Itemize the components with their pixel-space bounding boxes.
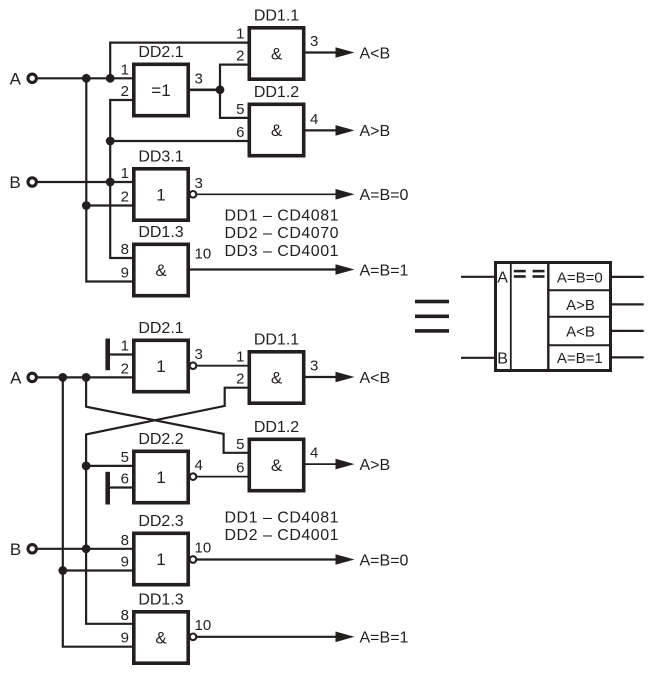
svg-text:3: 3 (195, 70, 203, 87)
wire: A rail down to DD1.3 pin 9 (86, 206, 132, 282)
svg-text:A<B: A<B (360, 370, 391, 387)
svg-text:5: 5 (236, 436, 244, 453)
svg-text:4: 4 (310, 445, 318, 462)
equivalence symbol bar 2 (415, 315, 449, 319)
svg-text:&: & (271, 45, 283, 64)
svg-text:1: 1 (156, 550, 165, 569)
junction: B rail / B input line (82, 544, 91, 553)
svg-text:DD2.3: DD2.3 (138, 513, 183, 530)
svg-text:DD2.2: DD2.2 (138, 431, 183, 448)
svg-text:A=B=1: A=B=1 (360, 262, 409, 279)
AND gate DD1.2 (bottom) (249, 439, 303, 490)
svg-text:1: 1 (236, 349, 244, 366)
NOR gate DD3.1 (top) (134, 169, 188, 220)
block inner divider (outputs column) (547, 261, 549, 372)
wire: B branch to DD1.2 pin 6 (110, 140, 247, 142)
svg-text:DD2 – CD4070: DD2 – CD4070 (225, 225, 340, 242)
svg-text:2: 2 (236, 48, 244, 65)
wire: B rail down to DD1.3 pin 8 (110, 182, 132, 258)
svg-text:3: 3 (195, 175, 203, 192)
arrow: A=B=0 output (bottom) (336, 554, 355, 565)
svg-text:9: 9 (121, 630, 129, 647)
wire: XOR out down to DD1.2 pin 5 (220, 90, 248, 118)
svg-text:3: 3 (310, 358, 318, 375)
svg-text:1: 1 (156, 357, 165, 376)
input terminal B (top comparator) (28, 178, 36, 186)
junction: B rail at DD2.2 pin 5 (82, 462, 91, 471)
svg-text:A: A (10, 368, 22, 387)
wire: block input B (461, 357, 495, 359)
AND gate DD1.1 (bottom) (249, 352, 303, 403)
arrow: A>B output (bottom) (336, 459, 355, 470)
wire: block output A=B=1 (612, 356, 644, 358)
inversion bubble DD2.2 output (190, 473, 197, 480)
inversion bubble DD2.3 output (190, 556, 197, 563)
equivalence symbol bar 3 (415, 329, 449, 333)
svg-text:2: 2 (236, 371, 244, 388)
svg-text:&: & (155, 261, 167, 280)
svg-text:10: 10 (195, 540, 212, 557)
svg-text:DD2.1: DD2.1 (138, 44, 183, 61)
svg-text:DD3.1: DD3.1 (138, 149, 183, 166)
wire: B rail down to B input line (85, 466, 87, 549)
wire: XOR out up to DD1.1 pin 2 (220, 65, 248, 90)
junction: A line / far-left A rail (bottom) (58, 373, 67, 382)
junction: A rail at DD3.1 pin 2 (82, 201, 91, 210)
svg-text:DD2 – CD4001: DD2 – CD4001 (225, 527, 340, 544)
svg-text:DD1.3: DD1.3 (138, 592, 183, 609)
wire: A branch up to DD1.1 pin 1 (110, 43, 247, 79)
wire: DD1.1 output to A<B arrow (bottom) (306, 376, 338, 378)
logic-1 tie bar at DD2.1 pin 1 (105, 339, 110, 371)
svg-text:A>B: A>B (360, 123, 391, 140)
inversion bubble DD1.3 output (bottom) (190, 634, 197, 641)
svg-text:DD1.1: DD1.1 (254, 332, 299, 349)
NAND gate DD1.3 (bottom) (134, 612, 188, 663)
svg-text:DD1 – CD4081: DD1 – CD4081 (225, 207, 340, 224)
wire: A rail down to DD1.3 pin 9 (bottom) (63, 571, 132, 647)
svg-text:5: 5 (236, 101, 244, 118)
wire: B rail down to DD1.3 pin 8 (bottom) (86, 549, 132, 624)
wire: block output A>B (612, 303, 644, 305)
wire: DD2.2 out to DD1.2 pin 6 (bottom) (197, 476, 248, 478)
wire: junction to DD2.2 pin 5 (86, 465, 132, 467)
wire: tie bar to DD2.2 pin 6 (110, 486, 132, 488)
svg-text:6: 6 (236, 459, 244, 476)
arrow: A=B=0 output (top) (336, 189, 355, 200)
block function symbol = = (514, 270, 526, 273)
equivalence symbol bar 1 (415, 300, 449, 304)
svg-text:8: 8 (121, 532, 129, 549)
svg-text:1: 1 (121, 61, 129, 78)
input terminal B (bottom comparator) (28, 545, 36, 553)
svg-text:3: 3 (310, 33, 318, 50)
svg-text:1: 1 (236, 26, 244, 43)
wire: DD2.1 out to DD1.1 pin 1 (bottom) (197, 365, 248, 367)
junction: A line / branch to DD1.1 pin 1 (106, 74, 115, 83)
wire: DD1.3 output to A=B=1 arrow (bottom) (197, 636, 337, 638)
svg-text:A<B: A<B (566, 324, 595, 341)
wire: DD1.1 output to A<B arrow (306, 51, 338, 53)
wire: DD1.2 output to A>B arrow (bottom) (306, 463, 338, 465)
wire: DD1.3 output to A=B=1 arrow (190, 268, 337, 270)
svg-text:2: 2 (121, 189, 129, 206)
wire: A left rail down to DD3.1 pin 2 junction (85, 78, 87, 205)
junction: B line / B rail (top) (106, 178, 115, 187)
svg-text:A=B=0: A=B=0 (557, 269, 603, 286)
svg-text:4: 4 (310, 111, 318, 128)
svg-text:5: 5 (121, 449, 129, 466)
input terminal A (top comparator) (28, 74, 36, 82)
svg-text:A<B: A<B (360, 45, 391, 62)
wire: A terminal to DD2.1 pin 1 (37, 77, 133, 79)
XOR gate DD2.1 (top) (134, 64, 188, 115)
svg-text:DD2.1: DD2.1 (138, 320, 183, 337)
wire: A cross branch to DD1.2 pin 5 (diagonal) (86, 377, 247, 452)
wire: DD1.1 pin 2 cross branch to B rail (diagonal) (86, 388, 247, 466)
svg-text:B: B (9, 173, 20, 192)
AND gate DD1.3 (top) (134, 244, 188, 295)
svg-text:4: 4 (195, 457, 203, 474)
svg-text:&: & (271, 369, 283, 388)
junction: B rail at DD1.2 pin 6 branch (106, 137, 115, 146)
svg-text:2: 2 (121, 360, 129, 377)
wire: DD1.2 output to A>B arrow (306, 129, 338, 131)
svg-text:8: 8 (121, 241, 129, 258)
inversion bubble DD2.1 output (bottom) (190, 362, 197, 369)
svg-text:6: 6 (236, 124, 244, 141)
wire: B terminal to DD3.1 pin 1 (37, 181, 133, 183)
svg-text:1: 1 (121, 338, 129, 355)
wire: B terminal to DD2.3 pin 8 (37, 548, 133, 550)
junction: XOR output fanout (216, 85, 225, 94)
svg-text:B: B (497, 351, 508, 368)
svg-text:10: 10 (195, 246, 212, 263)
junction: A line / cross branch (bottom) (82, 373, 91, 382)
wire: junction to DD2.3 pin 9 (63, 569, 132, 571)
svg-text:=1: =1 (151, 81, 170, 100)
logic-1 tie bar at DD2.2 pin 6 (105, 472, 110, 505)
svg-text:&: & (155, 629, 167, 648)
comparator block outline (496, 263, 611, 371)
svg-text:1: 1 (121, 165, 129, 182)
AND gate DD1.1 (top) (249, 28, 303, 79)
wire: block output A=B=0 (612, 276, 644, 278)
svg-text:B: B (10, 540, 21, 559)
svg-text:DD1.3: DD1.3 (138, 224, 183, 241)
block inner divider (inputs column) (510, 261, 512, 372)
AND gate DD1.2 (top) (249, 104, 303, 155)
wire: DD3.1 output to A=B=0 arrow (197, 193, 337, 195)
svg-text:A: A (10, 69, 22, 88)
NOR gate DD2.3 (134, 533, 188, 584)
svg-text:A=B=1: A=B=1 (557, 350, 603, 367)
svg-text:A=B=0: A=B=0 (360, 187, 409, 204)
block cell divider 1 (548, 289, 612, 291)
arrow: A<B output (top) (336, 47, 355, 58)
arrow: A=B=1 output (top) (336, 264, 355, 275)
wire: junction to DD3.1 pin 2 (86, 204, 132, 206)
input terminal A (bottom comparator) (28, 373, 36, 381)
wire: A terminal to DD2.1 pin 2 (bottom) (37, 376, 133, 378)
svg-text:A=B=0: A=B=0 (360, 552, 409, 569)
wire: B rail up to DD2.1 pin 2 (110, 100, 132, 182)
svg-text:1: 1 (156, 186, 165, 205)
arrow: A<B output (bottom) (336, 372, 355, 383)
wire: A rail down to DD2.3 pin 9 junction (62, 377, 64, 570)
svg-text:&: & (271, 121, 283, 140)
svg-text:DD1.2: DD1.2 (254, 419, 299, 436)
svg-text:DD1 – CD4081: DD1 – CD4081 (225, 509, 340, 526)
NOR gate DD2.1 (bottom) (134, 340, 188, 391)
svg-text:DD1.2: DD1.2 (254, 84, 299, 101)
svg-text:A>B: A>B (360, 457, 391, 474)
svg-text:DD1.1: DD1.1 (254, 8, 299, 25)
svg-text:10: 10 (195, 617, 212, 634)
NOR gate DD2.2 (134, 451, 188, 502)
svg-text:A>B: A>B (566, 297, 595, 314)
inversion bubble DD3.1 output (190, 191, 197, 198)
wire: block input A (461, 276, 495, 278)
svg-text:A=B=1: A=B=1 (360, 630, 409, 647)
svg-text:3: 3 (195, 346, 203, 363)
svg-text:DD3 – CD4001: DD3 – CD4001 (225, 243, 340, 260)
svg-text:&: & (271, 456, 283, 475)
svg-text:2: 2 (121, 83, 129, 100)
arrow: A=B=1 output (bottom) (336, 632, 355, 643)
wire: DD2.3 output to A=B=0 arrow (197, 558, 337, 560)
svg-text:A: A (497, 270, 508, 287)
svg-text:9: 9 (121, 265, 129, 282)
block cell divider 2 (548, 316, 612, 318)
wire: DD2.1 output 3 to fanout junction (190, 89, 220, 92)
svg-text:6: 6 (121, 471, 129, 488)
wire: tie bar to DD2.1 pin 1 (bottom) (110, 353, 132, 355)
svg-text:9: 9 (121, 554, 129, 571)
wire: block output A<B (612, 330, 644, 332)
arrow: A>B output (top) (336, 125, 355, 136)
junction: A rail at DD2.3 pin 9 (58, 566, 67, 575)
block cell divider 3 (548, 344, 612, 346)
svg-text:1: 1 (156, 468, 165, 487)
junction: A line / left rail (top) (82, 74, 91, 83)
svg-text:8: 8 (121, 607, 129, 624)
